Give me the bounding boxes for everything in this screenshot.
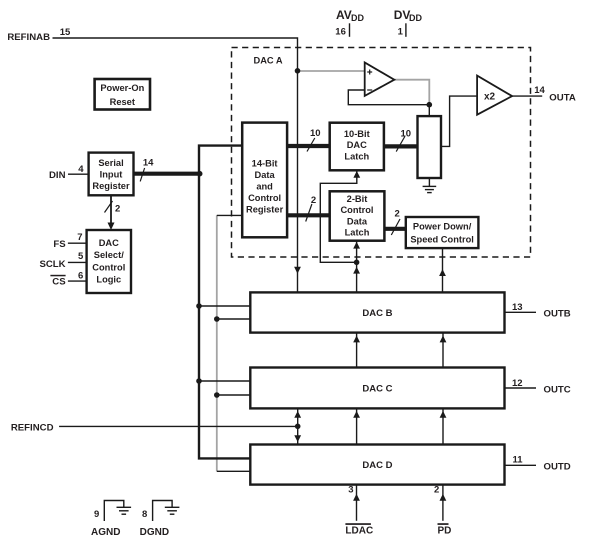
wire: DAC B lower stub <box>217 318 251 320</box>
svg-text:x2: x2 <box>484 92 496 103</box>
x2 amplifier <box>477 76 512 115</box>
svg-text:Control: Control <box>92 262 125 272</box>
svg-text:14-Bit: 14-Bit <box>252 158 278 168</box>
wire: DAC D gray stub <box>217 470 251 472</box>
svg-text:4: 4 <box>78 164 84 175</box>
wire: register left 2-bit stub <box>217 214 242 216</box>
wire: OUTC output <box>505 387 537 389</box>
svg-text:AGND: AGND <box>91 527 120 538</box>
node: REFINAB to op-amp <box>295 68 301 74</box>
arrow: B-C right up <box>440 336 447 343</box>
block: DAC C <box>250 368 504 409</box>
svg-text:DAC: DAC <box>99 238 119 248</box>
wire: B-C column right <box>442 333 444 368</box>
block: Power-On Reset <box>95 79 150 110</box>
svg-text:DAC: DAC <box>347 140 367 150</box>
svg-text:15: 15 <box>60 27 71 38</box>
svg-text:10: 10 <box>401 129 412 140</box>
node: DAC B upper <box>196 303 202 309</box>
arrow: LDAC up <box>353 494 360 501</box>
wire: C-D column left <box>356 408 358 444</box>
wire: FS input <box>68 242 87 244</box>
ARROWHEADS <box>108 171 447 501</box>
svg-text:OUTA: OUTA <box>549 93 576 104</box>
arrow: C-D right up <box>440 411 447 418</box>
svg-text:Select/: Select/ <box>94 250 124 260</box>
slash: 14 bus <box>140 168 144 181</box>
arrow: into DAC select <box>108 223 115 231</box>
slash: reg to 2-bit <box>306 204 312 222</box>
wire: serial to select 2-bus <box>110 195 112 228</box>
svg-text:Speed Control: Speed Control <box>410 234 474 244</box>
svg-text:and: and <box>256 181 273 191</box>
slash: 10-bit to resistor <box>396 137 405 152</box>
wire: node to resistor top <box>428 105 430 116</box>
svg-text:Power-On: Power-On <box>100 83 144 93</box>
block: 14-Bit Data and Control Register <box>242 123 287 238</box>
DASHED BOX DAC A <box>232 48 531 258</box>
wire: REFINCD vertical <box>297 408 299 444</box>
wire: REFINAB line to DAC A and DAC B <box>53 38 298 292</box>
node: op-amp output <box>427 102 433 108</box>
wire: op-amp output to feedback node <box>394 80 429 105</box>
svg-text:CS: CS <box>52 277 66 288</box>
svg-text:11: 11 <box>513 454 524 465</box>
svg-text:DAC C: DAC C <box>362 383 392 394</box>
wire: DIN input <box>68 173 89 175</box>
arrow: latch column up <box>353 267 360 274</box>
svg-text:DD: DD <box>409 13 422 23</box>
slash: 2-bit to power down <box>391 219 400 235</box>
svg-text:Register: Register <box>246 204 284 214</box>
svg-text:Power Down/: Power Down/ <box>413 221 472 231</box>
wire: pin16 tick <box>349 23 351 37</box>
wire: gray control spine down to DAC D <box>216 215 218 471</box>
wire: latch feed column <box>356 241 358 293</box>
svg-text:PD: PD <box>438 526 452 537</box>
svg-text:Latch: Latch <box>345 228 370 238</box>
wire: REFINCD line <box>59 425 298 427</box>
bus: serial register to spine (14) <box>134 172 200 176</box>
arrow: B-C left up <box>353 336 360 343</box>
svg-text:DD: DD <box>351 13 364 23</box>
wire: OUTD output <box>505 464 537 466</box>
svg-text:REFINCD: REFINCD <box>11 422 54 433</box>
svg-text:DIN: DIN <box>49 170 66 181</box>
svg-text:2-Bit: 2-Bit <box>347 194 368 204</box>
wire: B-C column left <box>356 333 358 368</box>
svg-text:16: 16 <box>335 27 346 38</box>
svg-text:14: 14 <box>143 157 154 168</box>
node: DAC C upper <box>196 378 202 384</box>
op-amp U1 <box>365 63 395 96</box>
svg-text:12: 12 <box>512 378 523 389</box>
svg-text:FS: FS <box>53 239 66 250</box>
node: DAC C lower <box>214 392 220 398</box>
wire: branch to 10-bit latch <box>320 170 357 262</box>
svg-text:REFINAB: REFINAB <box>7 32 50 43</box>
svg-text:OUTB: OUTB <box>544 309 571 320</box>
wire: SCLK input <box>68 261 87 263</box>
svg-text:2: 2 <box>395 208 400 219</box>
wire: CS input <box>68 280 87 282</box>
svg-text:13: 13 <box>512 302 523 313</box>
bus: 10-bit latch to resistor string <box>384 144 418 148</box>
block: 2-Bit Control Data Latch <box>330 191 385 240</box>
svg-text:DAC A: DAC A <box>254 56 283 66</box>
block: 10-Bit DAC Latch <box>330 123 384 171</box>
svg-text:2: 2 <box>115 204 120 215</box>
arrow: REFINAB into DAC B <box>294 267 301 274</box>
svg-text:3: 3 <box>348 485 353 496</box>
svg-text:Logic: Logic <box>96 275 121 285</box>
wire: pin1 tick <box>405 23 407 37</box>
bus: 2-bit latch to power down <box>384 227 405 231</box>
ground: AGND pin 9 <box>104 501 131 522</box>
svg-text:8: 8 <box>142 509 147 520</box>
svg-text:6: 6 <box>78 271 83 282</box>
arrow: REFINCD down into DAC D <box>294 435 301 442</box>
SLASH MARKS <box>105 137 405 236</box>
svg-text:Serial: Serial <box>98 158 123 168</box>
arrow: power down column up <box>439 269 446 276</box>
resistor string <box>418 116 442 178</box>
svg-text:Control: Control <box>340 205 373 215</box>
svg-text:SCLK: SCLK <box>39 259 65 270</box>
svg-text:10: 10 <box>310 128 321 139</box>
wire: main data spine x199 <box>199 146 250 459</box>
svg-text:Input: Input <box>100 170 123 180</box>
node: serial bus junction <box>197 171 203 177</box>
svg-text:2: 2 <box>434 485 439 496</box>
slash: reg to 10-bit <box>307 138 315 152</box>
svg-text:OUTC: OUTC <box>544 384 571 395</box>
wire: op-amp feedback <box>348 90 429 105</box>
arrow: PD up <box>440 494 447 501</box>
svg-text:DV: DV <box>394 8 411 22</box>
svg-text:DAC B: DAC B <box>362 308 392 319</box>
svg-text:14: 14 <box>534 85 545 96</box>
wire: resistor tap to x2 input <box>441 96 477 146</box>
svg-text:2: 2 <box>311 195 316 206</box>
node: REFINCD junction <box>295 424 301 430</box>
svg-text:Register: Register <box>92 181 130 191</box>
block: Power Down Speed Control <box>406 217 479 248</box>
svg-text:Latch: Latch <box>344 151 369 161</box>
svg-text:DAC D: DAC D <box>362 460 392 471</box>
node: latch branch <box>354 260 360 266</box>
wire: PD stub <box>442 485 444 521</box>
svg-text:Reset: Reset <box>110 97 135 107</box>
wire: DAC C upper stub <box>199 380 250 382</box>
arrow: REFINCD up into DAC C <box>294 411 301 418</box>
ground: DGND pin 8 <box>153 501 180 522</box>
slash: serial 2 bus <box>105 201 113 213</box>
ground: resistor string <box>423 178 437 193</box>
svg-text:5: 5 <box>78 251 84 262</box>
arrow: into 10-bit latch <box>353 171 360 178</box>
wire: power down feed column <box>442 248 444 292</box>
block: DAC Select Control Logic <box>87 230 131 293</box>
svg-text:AV: AV <box>336 8 352 22</box>
bus: register to 2-bit latch <box>287 213 330 217</box>
wire: OUTA output <box>512 95 542 97</box>
wire: C-D column right <box>442 408 444 444</box>
svg-text:9: 9 <box>94 509 99 520</box>
block: DAC B <box>250 292 504 332</box>
svg-text:LDAC: LDAC <box>345 526 373 537</box>
wire: op-amp + input from REFINAB node <box>298 70 365 72</box>
wire: OUTB output <box>505 311 537 313</box>
svg-text:1: 1 <box>398 27 404 38</box>
svg-text:Data: Data <box>255 170 276 180</box>
svg-text:OUTD: OUTD <box>544 462 571 473</box>
wire: DAC C lower stub <box>217 394 251 396</box>
arrow: into 2-bit latch <box>353 242 360 249</box>
block: DAC D <box>250 445 504 485</box>
svg-text:Data: Data <box>347 216 368 226</box>
svg-text:Control: Control <box>248 193 281 203</box>
svg-text:DGND: DGND <box>140 527 169 538</box>
wire: LDAC stub <box>356 485 358 521</box>
bus: register to 10-bit latch <box>287 144 330 148</box>
wire: DAC B upper stub <box>199 305 250 307</box>
svg-text:7: 7 <box>77 232 82 243</box>
arrow: C-D left up <box>353 411 360 418</box>
block: Serial Input Register <box>89 153 134 196</box>
svg-text:10-Bit: 10-Bit <box>344 129 370 139</box>
node: DAC B lower <box>214 316 220 322</box>
